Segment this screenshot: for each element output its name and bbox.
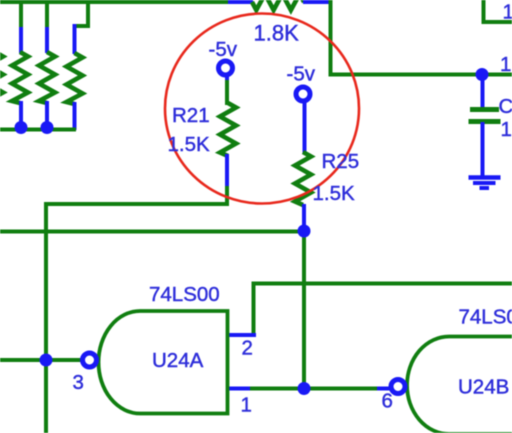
svg-text:1: 1 <box>241 394 252 417</box>
capacitor C plate1 <box>470 107 499 112</box>
resistor bank 3 <box>67 53 83 104</box>
svg-text:C: C <box>499 95 512 118</box>
wire mid horizontal <box>0 230 304 234</box>
wire center vertical <box>302 231 306 389</box>
wire green corner right <box>331 0 512 75</box>
wire pin1 green <box>250 387 378 391</box>
port -5v P2 <box>296 87 310 101</box>
ground bar2 <box>473 181 496 185</box>
bubble U24A <box>83 353 97 367</box>
resistor bank 1 <box>12 52 28 103</box>
svg-text:R25: R25 <box>322 150 360 173</box>
capacitor C plate2 <box>469 119 501 124</box>
wire cap top blue <box>481 75 485 109</box>
annotation red circle <box>165 14 359 204</box>
wire P2 blue <box>303 101 307 153</box>
wire L corner to bottom <box>46 204 229 433</box>
ground bar3 <box>480 186 490 190</box>
svg-text:-5v: -5v <box>209 38 238 61</box>
junction dot bank1 <box>15 121 28 134</box>
svg-text:74LS00: 74LS00 <box>459 306 512 329</box>
junction dot pin3 <box>40 354 53 367</box>
wire P1 stub green <box>225 80 229 105</box>
wire bank1 bottom blue <box>19 101 23 127</box>
svg-text:1: 1 <box>503 1 512 24</box>
wire pin1 blue <box>228 387 251 391</box>
svg-text:3: 3 <box>73 371 84 394</box>
wire bank3 bottom blue <box>73 102 77 130</box>
bubble U24B <box>391 380 405 394</box>
junction dot cap <box>476 68 489 81</box>
wire pin2 riser <box>254 284 512 338</box>
svg-text:U24B: U24B <box>458 376 509 399</box>
wire pin3 <box>0 358 81 362</box>
port -5v P1 <box>219 61 233 75</box>
resistor bank 2 <box>39 52 55 103</box>
svg-text:2: 2 <box>242 337 253 360</box>
ground bar1 <box>469 175 501 180</box>
wire R25 bottom blue <box>302 204 306 233</box>
wire stub3 blue <box>73 24 77 54</box>
wire stub1 blue <box>19 27 23 53</box>
svg-text:1.8K: 1.8K <box>254 21 300 46</box>
wire stub2 blue <box>45 27 49 53</box>
svg-text:U24A: U24A <box>152 349 204 372</box>
junction dot pin1 <box>298 382 311 395</box>
op-amp U24A body <box>99 311 228 414</box>
wire pin1 blue2 <box>377 387 390 391</box>
wire blue right of R top <box>303 0 330 4</box>
wire top-right corner <box>484 0 512 22</box>
wire P1 pin blue <box>225 75 229 82</box>
svg-text:1.5K: 1.5K <box>168 133 210 156</box>
svg-text:-5v: -5v <box>287 63 316 86</box>
wire R21 bottom green <box>225 186 229 206</box>
wire stub1 green <box>19 0 23 29</box>
svg-text:6: 6 <box>382 390 393 413</box>
wire top bus <box>0 0 229 4</box>
wire stub3 green jog <box>75 0 89 26</box>
junction dot bank2 <box>41 121 54 134</box>
svg-text:1.5K: 1.5K <box>313 182 355 205</box>
resistor R25 <box>295 152 311 205</box>
resistor R21 <box>220 103 236 156</box>
wire cap bottom blue <box>481 122 485 177</box>
op-amp U24B body <box>407 337 512 433</box>
wire bank bottom bus <box>0 128 76 132</box>
junction dot R25 <box>298 225 311 238</box>
wire R21 bottom blue <box>225 154 229 188</box>
wire stub2 green <box>45 0 49 29</box>
wire pin2 blue <box>229 333 256 337</box>
wire bank2 bottom blue <box>45 101 49 127</box>
svg-text:1: 1 <box>500 53 511 76</box>
resistor partial at left edge <box>0 52 3 103</box>
svg-text:R21: R21 <box>172 104 210 127</box>
resistor 1.8K (horizontal, top edge) <box>252 0 304 10</box>
svg-text:74LS00: 74LS00 <box>149 283 220 306</box>
svg-text:1: 1 <box>501 118 512 141</box>
wire blue left of R top <box>228 0 253 4</box>
